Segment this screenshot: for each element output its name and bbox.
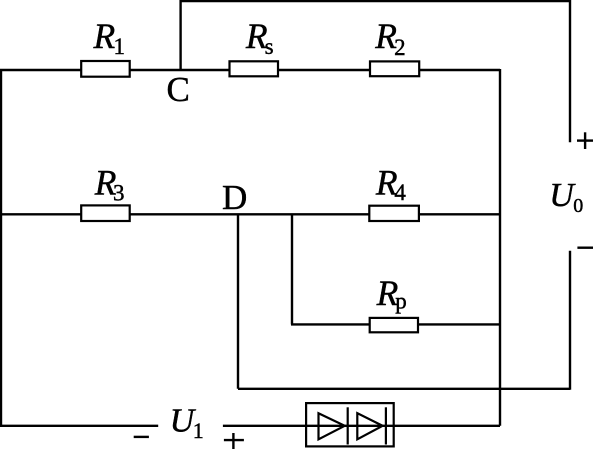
svg-text:R: R xyxy=(93,16,116,56)
svg-text:2: 2 xyxy=(394,35,406,60)
svg-text:0: 0 xyxy=(573,195,583,217)
svg-text:s: s xyxy=(265,34,274,59)
svg-text:U: U xyxy=(549,177,576,214)
svg-text:C: C xyxy=(167,70,190,109)
svg-text:4: 4 xyxy=(394,180,406,205)
svg-text:1: 1 xyxy=(193,418,204,443)
svg-text:1: 1 xyxy=(114,34,126,59)
svg-text:D: D xyxy=(222,178,247,217)
svg-text:p: p xyxy=(395,289,407,314)
svg-text:3: 3 xyxy=(113,181,125,206)
